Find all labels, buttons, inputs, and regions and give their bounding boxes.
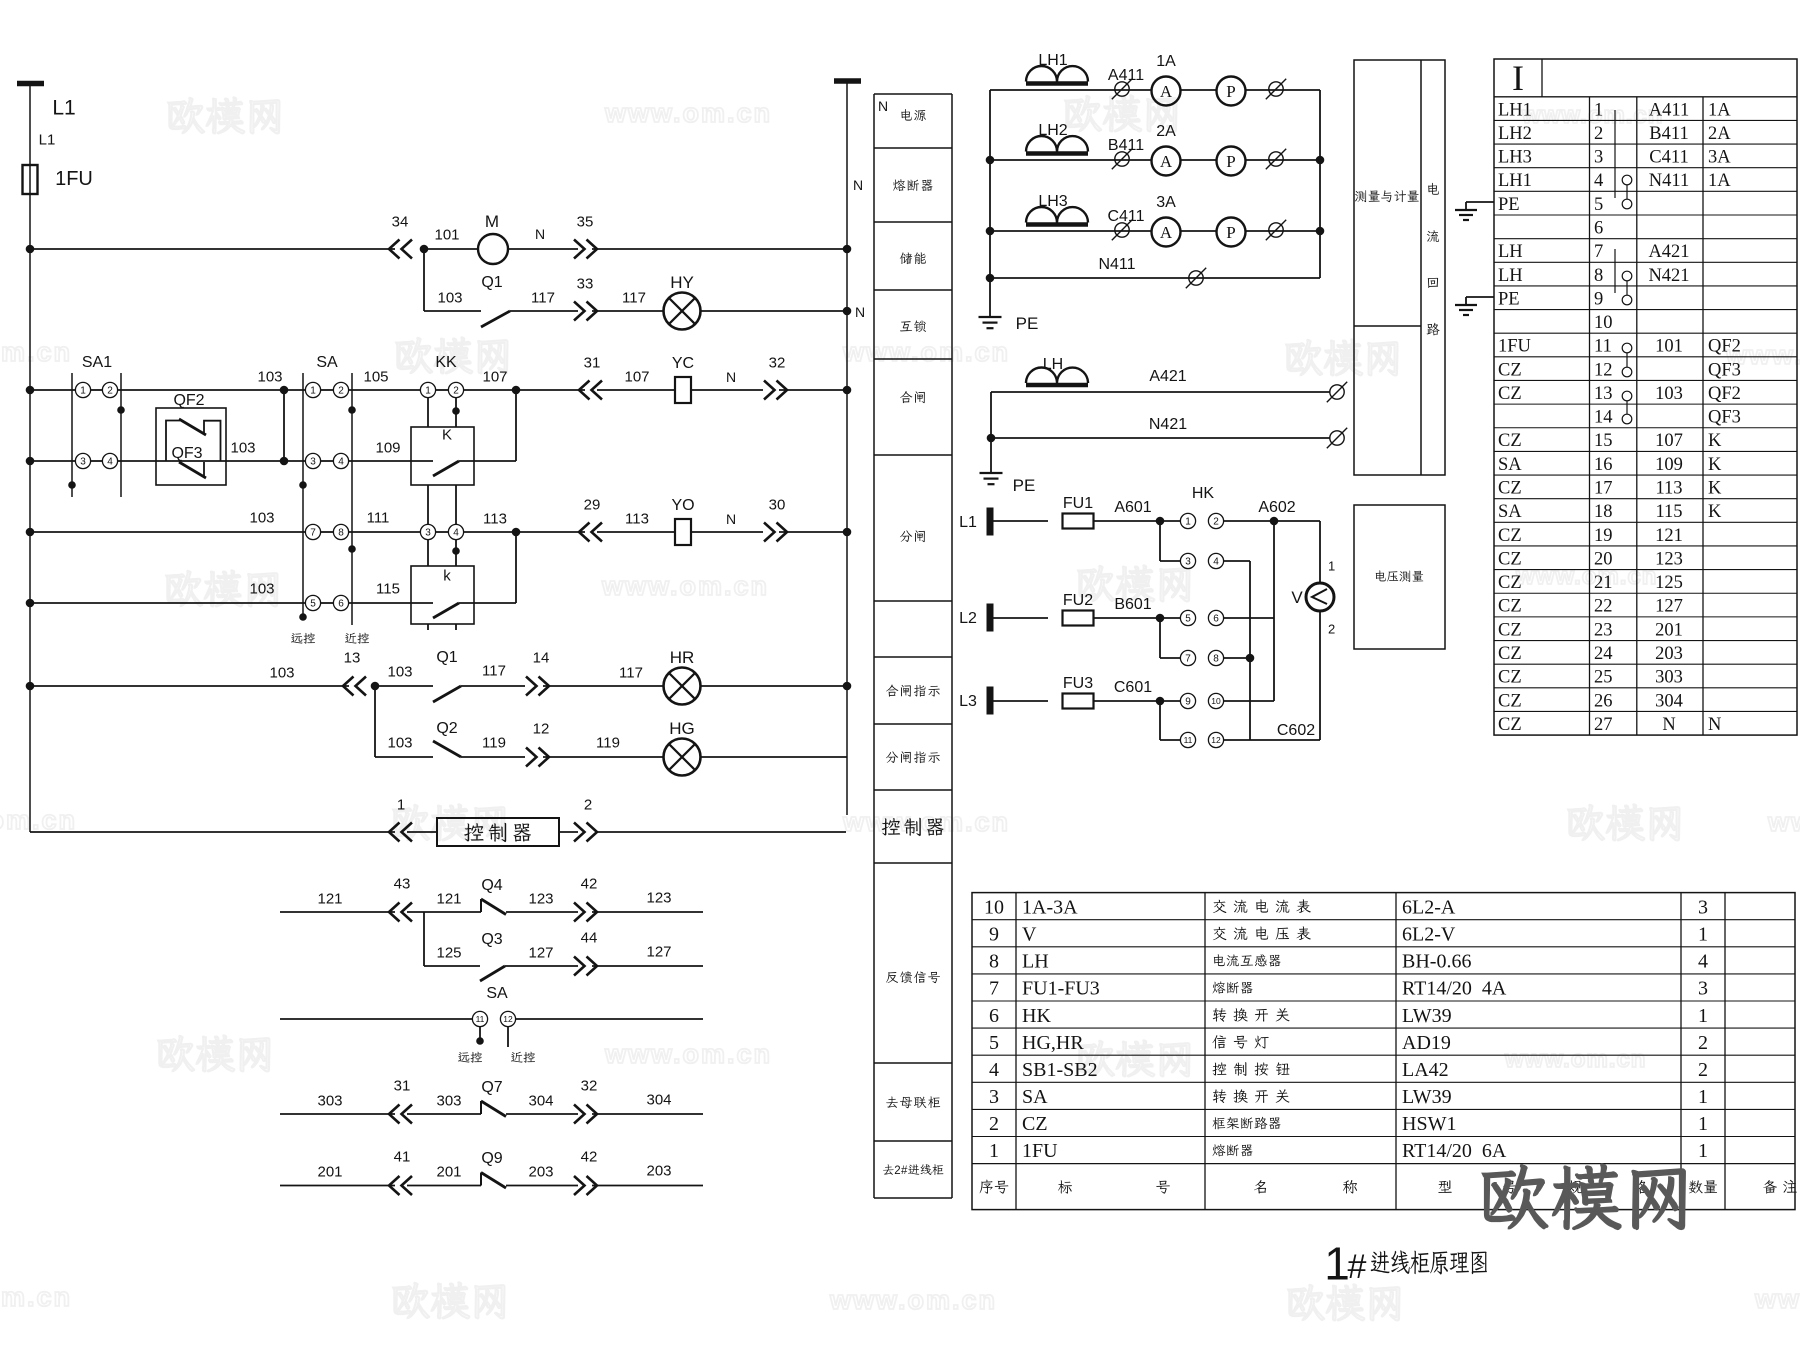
svg-text:2: 2 bbox=[989, 1113, 999, 1135]
svg-text:FU2: FU2 bbox=[1063, 592, 1093, 609]
switch Q4 bbox=[480, 899, 482, 912]
svg-text:QF2: QF2 bbox=[1708, 337, 1741, 357]
wire HK2 to A602 node bbox=[1224, 520, 1321, 522]
svg-text:LH: LH bbox=[1498, 242, 1523, 262]
label kongzhiqi box bbox=[464, 823, 484, 841]
svg-text:K: K bbox=[442, 426, 452, 443]
node N bus YC row bbox=[843, 386, 852, 395]
svg-text:SA1: SA1 bbox=[82, 354, 112, 371]
svg-text:1: 1 bbox=[310, 386, 316, 397]
fuse FU2 bbox=[1063, 611, 1094, 626]
connector 33 bbox=[574, 302, 597, 321]
wire to lamp HY bbox=[592, 310, 663, 312]
svg-text:Q3: Q3 bbox=[481, 931, 502, 948]
svg-text:125: 125 bbox=[1655, 573, 1683, 593]
box measurement and metering bbox=[1354, 60, 1445, 475]
svg-text:www.om.cn: www.om.cn bbox=[1754, 1284, 1800, 1314]
svg-text:119: 119 bbox=[482, 734, 506, 751]
node N bus YO row bbox=[843, 528, 852, 537]
wire FU3 to HK9 bbox=[1094, 700, 1181, 702]
node 103 junction row2 bbox=[280, 457, 289, 466]
node metering left row 3 bbox=[986, 227, 995, 236]
svg-text:117: 117 bbox=[531, 289, 555, 306]
svg-text:101: 101 bbox=[1655, 337, 1683, 357]
wire P to end row 2 bbox=[1246, 159, 1321, 161]
node left bus row4 bbox=[26, 599, 35, 608]
terminal mark C411 bbox=[1115, 223, 1129, 237]
wire to HR lamp bbox=[543, 685, 663, 687]
divider measurement box bbox=[1354, 325, 1421, 327]
wire left bus to SA deck3 bbox=[30, 531, 306, 533]
svg-text:LH3: LH3 bbox=[1498, 148, 1532, 168]
label column 去母联柜 bbox=[886, 1097, 898, 1108]
svg-text:SA: SA bbox=[316, 354, 338, 371]
svg-text:113: 113 bbox=[483, 510, 507, 527]
contact SA-1 bbox=[305, 382, 320, 397]
wire node to SA bbox=[284, 389, 306, 391]
contact SA-8 bbox=[333, 524, 348, 539]
svg-text:www.om.cn: www.om.cn bbox=[842, 807, 1010, 837]
svg-text:PE: PE bbox=[1498, 195, 1520, 215]
connector 13 bbox=[343, 677, 366, 696]
wire SA12 gap bbox=[321, 389, 334, 391]
label column 去2#进线柜 bbox=[883, 1164, 894, 1174]
label column 合闸 bbox=[900, 391, 912, 403]
svg-text:42: 42 bbox=[581, 875, 598, 892]
wire branch Q3 bbox=[423, 912, 425, 966]
svg-text:3: 3 bbox=[310, 457, 316, 468]
terminal mark B411 bbox=[1115, 152, 1129, 166]
svg-text:CZ: CZ bbox=[1498, 431, 1522, 451]
wire KK1 down to K box bbox=[427, 398, 429, 428]
node B601 bbox=[1156, 614, 1165, 623]
svg-text:HK: HK bbox=[1192, 485, 1215, 502]
wire QF box internal row2 bbox=[156, 460, 226, 462]
svg-text:32: 32 bbox=[581, 1077, 598, 1094]
svg-text:k: k bbox=[443, 567, 451, 584]
watermark omoba dark bbox=[1483, 1165, 1548, 1228]
node SA1 bar dot3 bbox=[68, 481, 76, 489]
svg-text:www.om.cn: www.om.cn bbox=[0, 805, 77, 835]
svg-text:121: 121 bbox=[436, 890, 461, 907]
node HK8 bbox=[1246, 654, 1255, 663]
wire SA78 gap bbox=[321, 531, 334, 533]
svg-text:117: 117 bbox=[622, 289, 646, 306]
coil YO bbox=[675, 519, 691, 545]
svg-text:19: 19 bbox=[1594, 526, 1613, 546]
svg-text:CZ: CZ bbox=[1498, 715, 1522, 735]
wire HG to N bus bbox=[700, 756, 847, 758]
wire N411 row bbox=[990, 277, 1320, 279]
svg-text:7: 7 bbox=[1185, 654, 1191, 665]
svg-text:1FU: 1FU bbox=[1498, 337, 1531, 357]
svg-text:6L2-A: 6L2-A bbox=[1402, 896, 1456, 918]
svg-text:33: 33 bbox=[577, 275, 594, 292]
svg-text:LW39: LW39 bbox=[1402, 1005, 1452, 1027]
svg-text:1: 1 bbox=[989, 1140, 999, 1162]
svg-text:CZ: CZ bbox=[1498, 597, 1522, 617]
node 101 bbox=[420, 245, 429, 254]
svg-text:www.om.cn: www.om.cn bbox=[842, 337, 1010, 367]
contact HK-6 bbox=[1208, 610, 1223, 625]
svg-text:115: 115 bbox=[376, 580, 400, 597]
node left bus YO row bbox=[26, 528, 35, 537]
svg-text:117: 117 bbox=[619, 664, 643, 681]
svg-text:3A: 3A bbox=[1708, 148, 1731, 168]
svg-text:A602: A602 bbox=[1258, 499, 1295, 516]
svg-text:1: 1 bbox=[80, 386, 86, 397]
wire A602 vertical bbox=[1273, 521, 1275, 701]
svg-text:C602: C602 bbox=[1277, 722, 1315, 739]
switch Q1b blade bbox=[433, 686, 461, 702]
svg-text:A: A bbox=[1160, 82, 1173, 101]
contact KK-3 bbox=[420, 524, 435, 539]
bus terminal N top right bbox=[834, 78, 861, 84]
svg-text:LH: LH bbox=[1022, 951, 1049, 973]
svg-text:201: 201 bbox=[436, 1163, 461, 1180]
terminal table header bbox=[1494, 59, 1797, 735]
wire controller to connector bbox=[559, 831, 578, 833]
svg-text:9: 9 bbox=[989, 924, 999, 946]
svg-text:KK: KK bbox=[435, 354, 457, 371]
svg-text:7: 7 bbox=[989, 978, 999, 1000]
label yuankong 2 bbox=[458, 1052, 470, 1062]
svg-text:SA: SA bbox=[1022, 1086, 1048, 1108]
svg-text:2: 2 bbox=[1698, 1059, 1708, 1081]
svg-text:N: N bbox=[1662, 715, 1675, 735]
svg-text:www.om.cn: www.om.cn bbox=[604, 98, 772, 128]
contact HK-9 bbox=[1180, 693, 1195, 708]
svg-text:8: 8 bbox=[1213, 654, 1219, 665]
node N bus HY row bbox=[843, 307, 852, 316]
contact SA-3 bbox=[305, 453, 320, 468]
svg-text:12: 12 bbox=[1594, 360, 1613, 380]
svg-text:FU1-FU3: FU1-FU3 bbox=[1022, 978, 1100, 1000]
wire to Q9 bbox=[407, 1185, 481, 1187]
wire YC to connector bbox=[691, 389, 763, 391]
wire vertical junction link bbox=[283, 390, 285, 461]
svg-text:203: 203 bbox=[1655, 644, 1683, 664]
wire L2 to FU2 bbox=[993, 617, 1048, 619]
svg-text:10: 10 bbox=[984, 896, 1004, 918]
QF3 contact jog bbox=[203, 462, 205, 476]
terminal mark N411 bbox=[1189, 271, 1203, 285]
terminal link rows7-8 bbox=[1614, 249, 1616, 293]
wire to YC coil bbox=[597, 389, 675, 391]
svg-text:43: 43 bbox=[394, 875, 411, 892]
svg-text:121: 121 bbox=[1655, 526, 1683, 546]
svg-text:1A: 1A bbox=[1708, 171, 1731, 191]
coil YC bbox=[675, 377, 691, 403]
svg-text:2: 2 bbox=[894, 1165, 900, 1177]
svg-text:CZ: CZ bbox=[1498, 526, 1522, 546]
svg-text:303: 303 bbox=[1655, 668, 1683, 688]
label column 分闸 bbox=[900, 531, 912, 542]
svg-text:29: 29 bbox=[584, 496, 601, 513]
fuse FU3 bbox=[1063, 694, 1094, 709]
svg-text:4: 4 bbox=[1594, 171, 1603, 191]
svg-text:4: 4 bbox=[989, 1059, 999, 1081]
label column 反馈信号 bbox=[886, 972, 898, 983]
contact SA-5 bbox=[305, 595, 320, 610]
svg-text:103: 103 bbox=[257, 368, 282, 385]
svg-text:L1: L1 bbox=[39, 131, 56, 148]
terminal jumper 4-5 bbox=[1622, 175, 1632, 185]
connector 35 bbox=[574, 240, 597, 259]
svg-text:13: 13 bbox=[344, 649, 361, 666]
svg-text:9: 9 bbox=[1594, 289, 1603, 309]
fuse 1FU bbox=[23, 165, 38, 194]
svg-text:LH1: LH1 bbox=[1498, 100, 1532, 120]
wire HK8 right bbox=[1224, 657, 1251, 659]
svg-text:42: 42 bbox=[581, 1148, 598, 1165]
wire HK12 to C602 bbox=[1224, 739, 1321, 741]
svg-text:11: 11 bbox=[1184, 735, 1193, 745]
node 113 junction bbox=[512, 528, 521, 537]
QF2 contact blade bbox=[179, 419, 206, 435]
node 103 junction top bbox=[280, 386, 289, 395]
svg-text:K: K bbox=[1708, 431, 1722, 451]
svg-text:N421: N421 bbox=[1648, 266, 1689, 286]
svg-text:3: 3 bbox=[1698, 896, 1708, 918]
svg-text:LH1: LH1 bbox=[1498, 171, 1532, 191]
box voltage measurement bbox=[1354, 505, 1445, 649]
svg-text:LA42: LA42 bbox=[1402, 1059, 1449, 1081]
relay k blade bbox=[433, 603, 459, 618]
svg-text:2A: 2A bbox=[1156, 123, 1176, 140]
svg-text:127: 127 bbox=[646, 943, 671, 960]
wire to Q2 bbox=[375, 756, 433, 758]
svg-text:1: 1 bbox=[1698, 1005, 1708, 1027]
svg-text:L2: L2 bbox=[959, 610, 977, 627]
svg-text:304: 304 bbox=[528, 1092, 553, 1109]
wire to YO coil bbox=[597, 531, 675, 533]
wire k blade to right bbox=[459, 602, 516, 604]
wire line2 row right bbox=[592, 1185, 703, 1187]
wire KK deck links bbox=[427, 485, 429, 525]
svg-text:23: 23 bbox=[1594, 620, 1613, 640]
label jinkong 2 bbox=[511, 1052, 523, 1063]
svg-text:P: P bbox=[1226, 82, 1235, 101]
svg-text:RT14/20 6A: RT14/20 6A bbox=[1402, 1140, 1507, 1162]
wire M to connector bbox=[508, 248, 578, 250]
wire Q4 to connector bbox=[506, 911, 578, 913]
wire L3 to FU3 bbox=[993, 700, 1048, 702]
svg-text:HG,HR: HG,HR bbox=[1022, 1032, 1084, 1054]
svg-text:6L2-V: 6L2-V bbox=[1402, 924, 1456, 946]
svg-text:Q9: Q9 bbox=[481, 1150, 502, 1167]
svg-text:20: 20 bbox=[1594, 549, 1613, 569]
svg-text:103: 103 bbox=[249, 580, 274, 597]
svg-text:SB1-SB2: SB1-SB2 bbox=[1022, 1059, 1098, 1081]
svg-text:1FU: 1FU bbox=[55, 168, 93, 190]
svg-text:4: 4 bbox=[453, 528, 459, 539]
svg-text:12: 12 bbox=[533, 720, 550, 737]
svg-text:2: 2 bbox=[1328, 622, 1335, 637]
svg-text:6: 6 bbox=[989, 1005, 999, 1027]
svg-text:LW39: LW39 bbox=[1402, 1086, 1452, 1108]
contact SA-7 bbox=[305, 524, 320, 539]
wire line2 row left bbox=[280, 1185, 395, 1187]
wire feedback row1 right bbox=[592, 911, 703, 913]
svg-text:201: 201 bbox=[1655, 620, 1683, 640]
node A601 bbox=[1156, 517, 1165, 526]
svg-text:HY: HY bbox=[670, 273, 694, 292]
wire HK6 right bbox=[1224, 617, 1275, 619]
wire to HG lamp bbox=[543, 756, 663, 758]
svg-text:HK: HK bbox=[1022, 1005, 1051, 1027]
QF2 contact bracket bbox=[166, 421, 180, 462]
svg-text:#: # bbox=[901, 1165, 908, 1177]
wire metering left vertical bbox=[989, 90, 991, 317]
voltmeter V bbox=[1306, 583, 1334, 611]
svg-text:www.om.cn: www.om.cn bbox=[0, 1282, 72, 1312]
wire to SA1 deck2 bbox=[30, 460, 75, 462]
svg-text:109: 109 bbox=[1655, 455, 1683, 475]
relay k box bbox=[411, 566, 474, 624]
wire left bus vertical bbox=[29, 86, 31, 832]
svg-text:3A: 3A bbox=[1156, 194, 1176, 211]
switch Q1 blade bbox=[481, 311, 510, 327]
wire controller row bbox=[30, 831, 395, 833]
watermark row5 bbox=[158, 1036, 194, 1071]
connector 12 bbox=[526, 748, 549, 767]
svg-text:CZ: CZ bbox=[1498, 479, 1522, 499]
wire FU2 to HK5 bbox=[1094, 617, 1181, 619]
wire branch 101 down bbox=[423, 249, 425, 311]
svg-text:123: 123 bbox=[646, 889, 671, 906]
svg-text:QF2: QF2 bbox=[1708, 384, 1741, 404]
wire SA remote row left bbox=[280, 1018, 472, 1020]
svg-text:QF3: QF3 bbox=[1708, 360, 1741, 380]
contact SA1-4 bbox=[102, 453, 117, 468]
svg-text:111: 111 bbox=[367, 509, 390, 526]
terminal mark right row 3 bbox=[1269, 223, 1283, 237]
svg-text:www.om.cn: www.om.cn bbox=[1515, 563, 1657, 590]
svg-text:CZ: CZ bbox=[1498, 668, 1522, 688]
ground terminal row5 bbox=[1466, 201, 1494, 203]
svg-text:203: 203 bbox=[528, 1163, 553, 1180]
svg-text:SA: SA bbox=[486, 985, 508, 1002]
connector 42 b bbox=[574, 1176, 597, 1195]
connector 42 a bbox=[574, 903, 597, 922]
svg-text:35: 35 bbox=[577, 213, 594, 230]
svg-text:11: 11 bbox=[476, 1014, 485, 1024]
svg-text:N: N bbox=[878, 98, 888, 114]
svg-text:10: 10 bbox=[1211, 696, 1221, 706]
wire Q9 to connector bbox=[506, 1185, 578, 1187]
svg-text:103: 103 bbox=[249, 509, 274, 526]
svg-text:C601: C601 bbox=[1114, 679, 1152, 696]
svg-text:B411: B411 bbox=[1649, 124, 1688, 144]
svg-text:5: 5 bbox=[310, 599, 316, 610]
svg-text:1: 1 bbox=[1324, 1238, 1350, 1290]
contact SA1-3 bbox=[75, 453, 90, 468]
svg-text:CZ: CZ bbox=[1498, 691, 1522, 711]
wire busbar row left bbox=[280, 1113, 395, 1115]
svg-text:109: 109 bbox=[375, 439, 400, 456]
wire M row right bbox=[592, 248, 847, 250]
svg-text:RT14/20 4A: RT14/20 4A bbox=[1402, 978, 1507, 1000]
terminal mark A411 bbox=[1115, 82, 1129, 96]
label column 电源 bbox=[901, 109, 911, 120]
svg-text:N: N bbox=[726, 369, 736, 385]
wire to Q7 bbox=[407, 1113, 481, 1115]
contact SA-4 bbox=[333, 453, 348, 468]
svg-text:P: P bbox=[1226, 152, 1235, 171]
node N bus M row bbox=[843, 245, 852, 254]
node 103 HR bbox=[371, 682, 380, 691]
QF3 contact blade bbox=[179, 462, 206, 478]
svg-text:107: 107 bbox=[1655, 431, 1683, 451]
wire HY to N bus bbox=[700, 310, 847, 312]
svg-text:CZ: CZ bbox=[1498, 573, 1522, 593]
label column 分闸指示 bbox=[886, 752, 898, 763]
contact KK-1 bbox=[420, 382, 435, 397]
watermark row3 bbox=[166, 571, 202, 606]
svg-text:24: 24 bbox=[1594, 644, 1613, 664]
wire KK3 down to k box bbox=[427, 540, 429, 567]
node SA bar bottom dot bbox=[299, 613, 307, 621]
svg-text:2: 2 bbox=[584, 796, 592, 813]
svg-text:K: K bbox=[1708, 455, 1722, 475]
wire L1 to FU1 bbox=[993, 520, 1048, 522]
wire HK4 right bbox=[1224, 560, 1251, 562]
svg-text:8: 8 bbox=[1594, 266, 1603, 286]
terminal L2 phase bbox=[987, 604, 993, 631]
svg-text:QF3: QF3 bbox=[1708, 408, 1741, 428]
svg-text:103: 103 bbox=[269, 664, 294, 681]
contact HK-1 bbox=[1180, 513, 1195, 528]
svg-text:5: 5 bbox=[989, 1032, 999, 1054]
svg-text:C411: C411 bbox=[1649, 148, 1688, 168]
connector 43 bbox=[389, 903, 412, 922]
svg-text:12: 12 bbox=[1211, 735, 1221, 745]
svg-text:www.om.cn: www.om.cn bbox=[1521, 102, 1663, 129]
svg-text:6: 6 bbox=[338, 599, 344, 610]
svg-text:121: 121 bbox=[317, 890, 342, 907]
node SA bar dot8 bbox=[348, 545, 356, 553]
svg-text:I: I bbox=[1512, 58, 1524, 98]
controller box bbox=[437, 818, 559, 846]
svg-text:www.om.cn: www.om.cn bbox=[1504, 1046, 1646, 1073]
svg-text:HSW1: HSW1 bbox=[1402, 1113, 1456, 1135]
wire V to C602 bbox=[1319, 611, 1321, 740]
label column 控制器 bbox=[882, 818, 901, 835]
terminal link rows1-4 bbox=[1614, 110, 1616, 198]
svg-text:LH: LH bbox=[1498, 266, 1523, 286]
watermark row1 bbox=[168, 98, 204, 133]
svg-text:34: 34 bbox=[392, 213, 409, 230]
switch SA1 bars bbox=[71, 373, 73, 497]
svg-text:1: 1 bbox=[1698, 1086, 1708, 1108]
svg-text:QF2: QF2 bbox=[173, 392, 204, 409]
wire KK2 to node 107 bbox=[464, 389, 517, 391]
wire KK4 down to k box bbox=[455, 540, 457, 567]
connector 32 b bbox=[574, 1105, 597, 1124]
svg-text:CZ: CZ bbox=[1498, 384, 1522, 404]
terminal mark N421 bbox=[1330, 431, 1344, 445]
svg-text:PE: PE bbox=[1498, 289, 1520, 309]
svg-text:31: 31 bbox=[584, 354, 601, 371]
wire YC row right bbox=[779, 389, 847, 391]
wire SA12 stub bbox=[507, 1027, 509, 1048]
CT LH3 bbox=[1026, 222, 1088, 227]
svg-text:18: 18 bbox=[1594, 502, 1613, 522]
svg-text:K: K bbox=[1708, 479, 1722, 499]
connector 44 bbox=[574, 957, 597, 976]
svg-text:CZ: CZ bbox=[1498, 360, 1522, 380]
